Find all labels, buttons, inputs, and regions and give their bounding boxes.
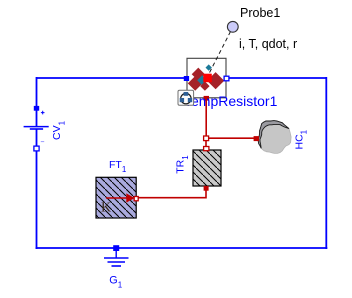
right pin (hollow blue square) — [224, 76, 229, 81]
left pin (filled blue square) — [184, 76, 189, 81]
minus sign — [41, 141, 44, 143]
wire: blue loop top-right segment — [228, 77, 327, 79]
svg-text:G1: G1 — [109, 274, 122, 289]
arrow head — [126, 193, 134, 202]
diamond teal top — [206, 64, 212, 70]
FT1 body — [96, 177, 136, 218]
pin n (hollow square) — [34, 146, 39, 151]
svg-text:FT1: FT1 — [109, 159, 127, 174]
battery short plate — [30, 128, 43, 130]
wire: blue loop top-left segment — [37, 77, 185, 79]
TR1 bottom pin (filled red square) — [204, 186, 209, 191]
svg-text:CV1: CV1 — [51, 120, 67, 140]
diamond dark red small lower — [200, 81, 209, 90]
wire: blue loop left side upper — [36, 77, 38, 126]
body box — [187, 58, 226, 98]
voltage source CV1 — [24, 106, 67, 151]
diamond teal mid — [197, 75, 207, 85]
TR1 body — [193, 150, 221, 186]
plus sign — [41, 111, 45, 115]
temp resistor U: TempResistor1 — [178, 32, 278, 110]
arrow shaft — [106, 197, 127, 199]
svg-text:TR1: TR1 — [175, 155, 190, 174]
blob main body — [258, 121, 291, 154]
probe Probe1 — [227, 6, 297, 51]
red wire: TempResistor bottom to junction — [205, 98, 207, 136]
ground bar 3 — [112, 265, 122, 267]
ground stem — [115, 249, 117, 258]
ground G1 — [104, 245, 129, 289]
wire: blue loop right side — [325, 77, 327, 249]
bottom pin (filled red square) — [204, 96, 209, 101]
probe dashed line — [209, 32, 231, 75]
pin p (filled square) — [34, 106, 39, 111]
heat capacitor HC1 — [254, 121, 309, 154]
junction node (hollow red square) — [204, 136, 209, 141]
bright red center square — [203, 74, 212, 83]
ground bar 2 — [108, 261, 126, 263]
diamond dark red top-left — [192, 68, 205, 81]
diamond dark red right large — [207, 72, 224, 89]
probe circle — [227, 21, 238, 32]
ground bar 1 — [104, 257, 129, 259]
FT1 port (hollow red square) — [134, 197, 138, 201]
wire: blue loop bottom — [36, 247, 328, 249]
blob shadow top — [258, 121, 289, 149]
TR1 top pin (hollow red square) — [204, 147, 209, 151]
diamond dark red left — [188, 76, 203, 91]
svg-text:K: K — [101, 201, 111, 216]
thermal resistor TR1 — [175, 147, 221, 191]
red wire: TR1 bottom to FT1 — [137, 189, 206, 198]
battery long plate — [24, 126, 49, 128]
junction square — [113, 245, 119, 251]
svg-text:HC1: HC1 — [293, 129, 308, 149]
HC1 port (filled red square) — [254, 136, 259, 141]
svg-text:i, T, qdot, r: i, T, qdot, r — [239, 37, 297, 51]
overlay class icon — [178, 90, 194, 105]
svg-text:TempResistor1: TempResistor1 — [184, 93, 278, 109]
heat source FT1 — [96, 159, 138, 218]
wire: blue loop left side lower — [36, 129, 38, 249]
svg-text:Probe1: Probe1 — [240, 6, 280, 20]
red wire: junction to TR1 top — [205, 140, 207, 146]
red wire: junction to HC1 — [207, 137, 254, 139]
